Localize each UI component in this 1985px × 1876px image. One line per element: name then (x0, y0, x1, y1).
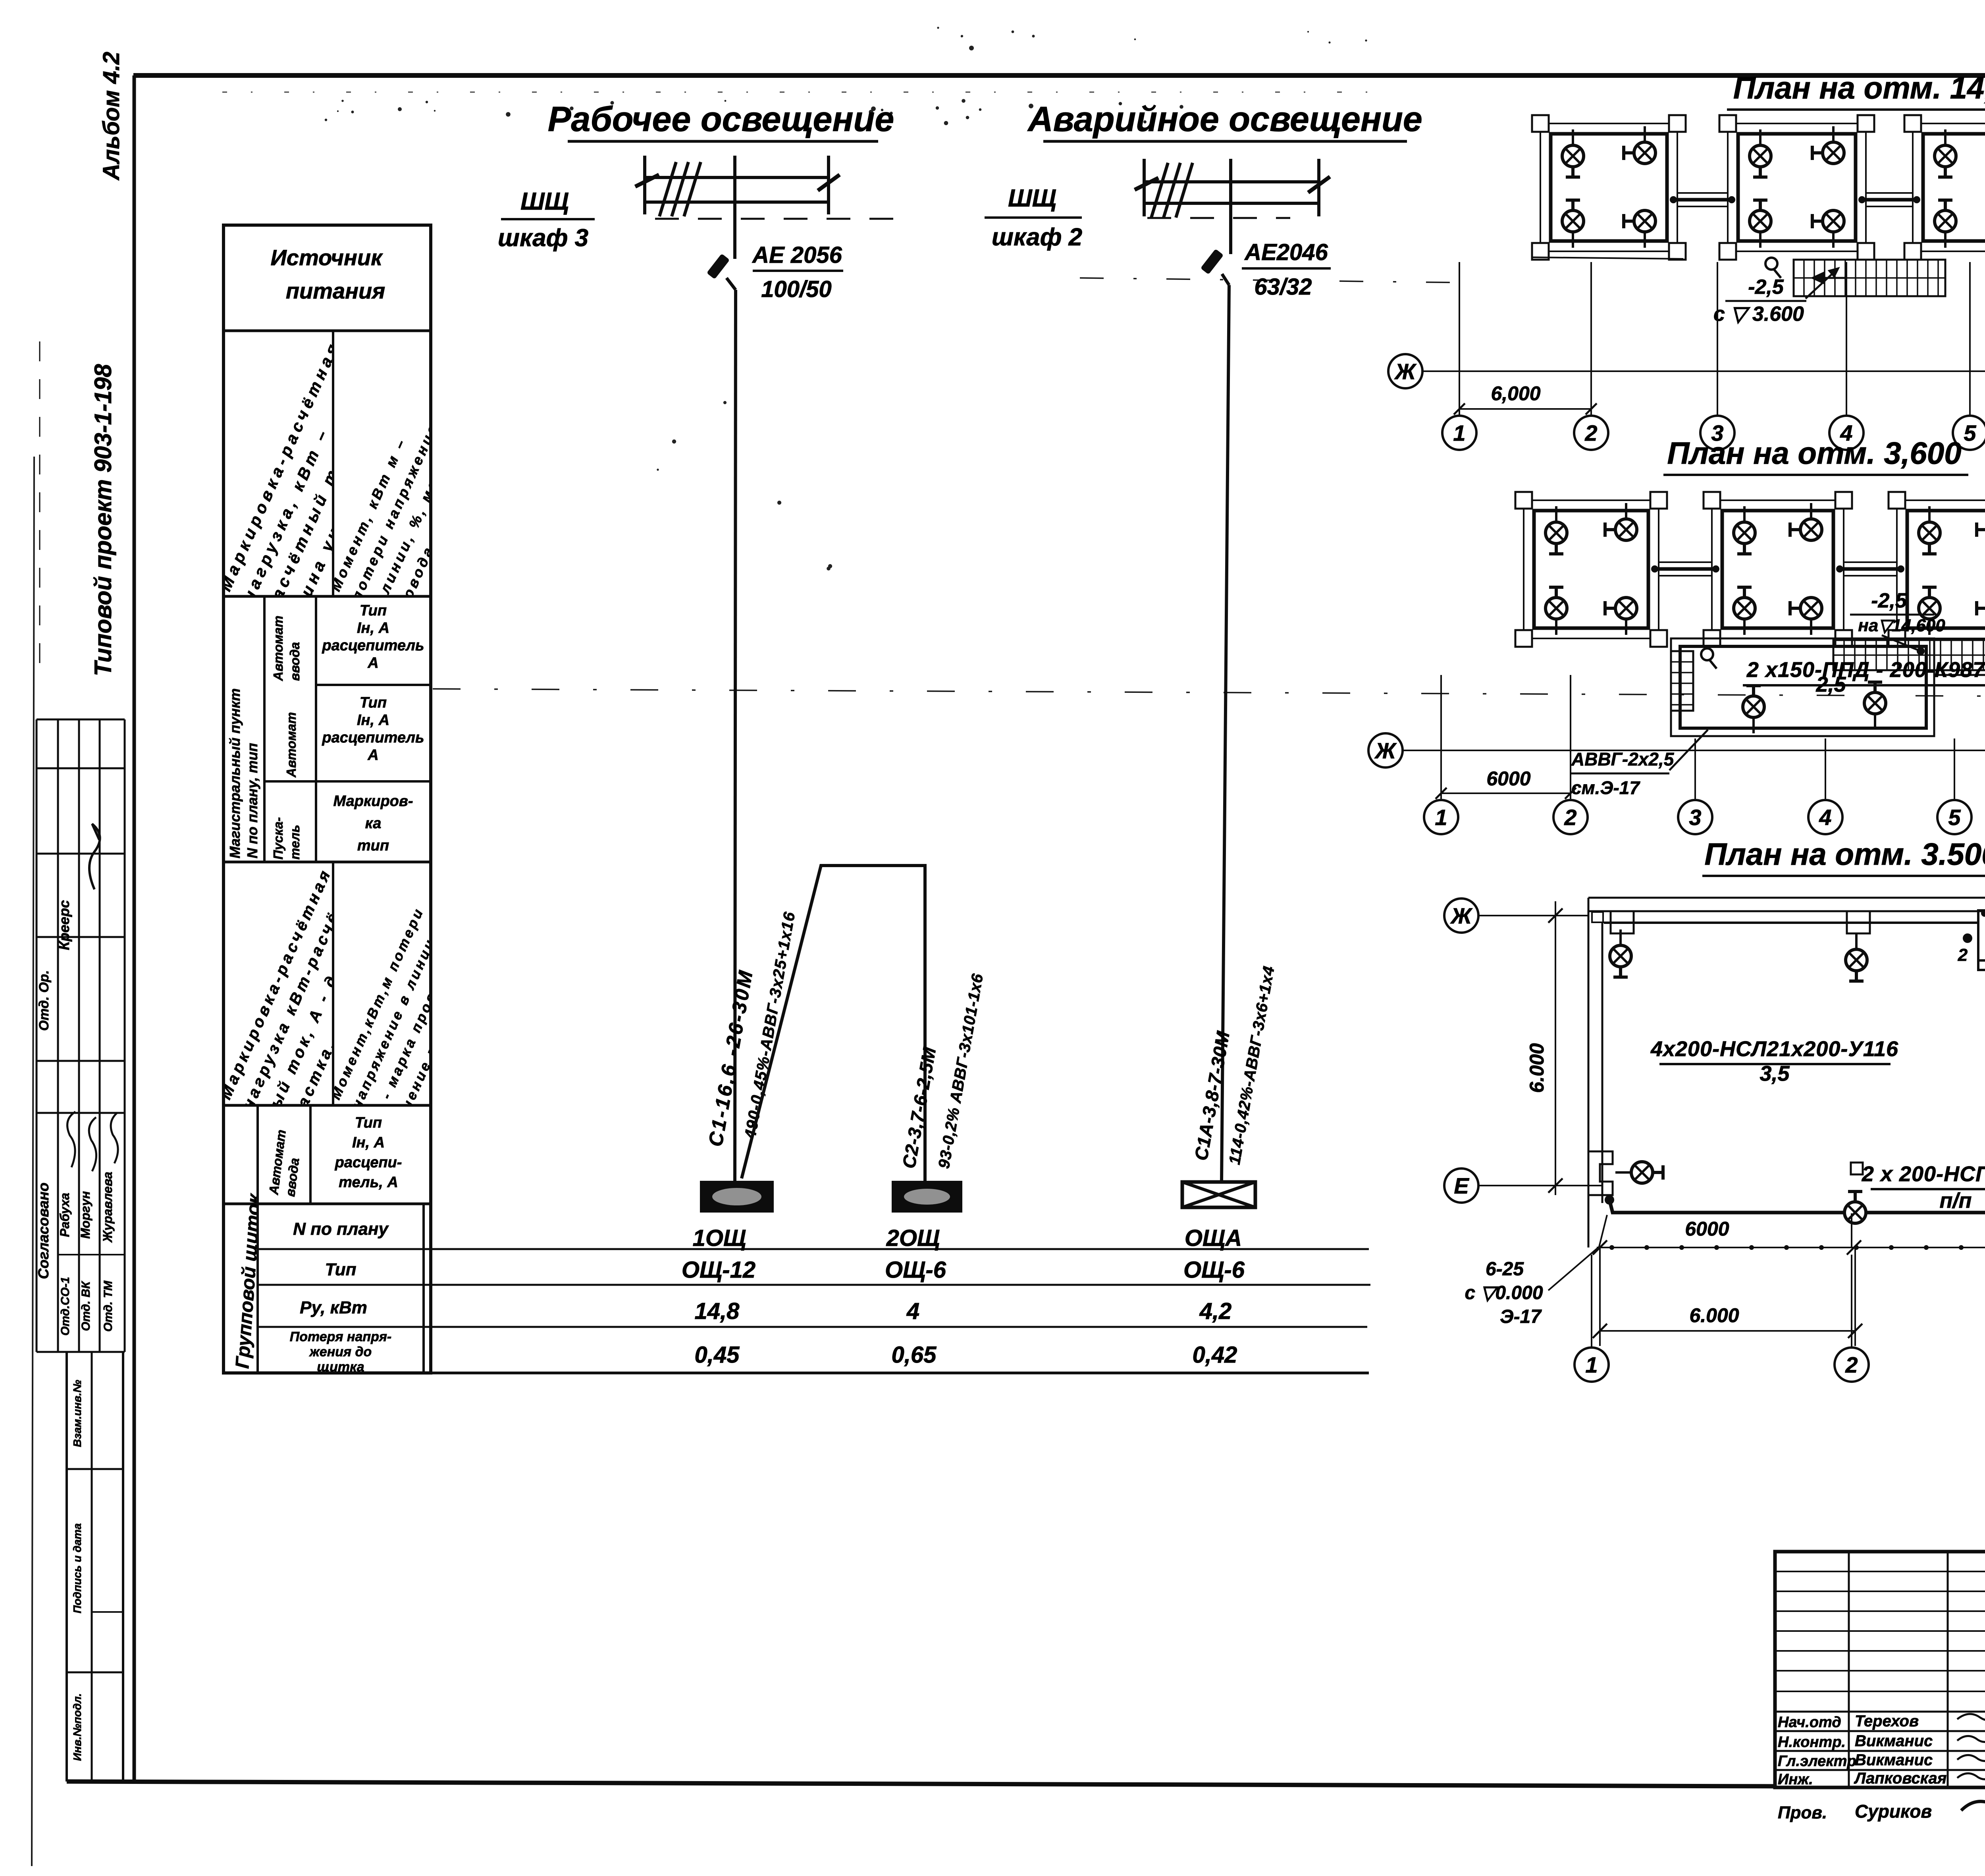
svg-text:Рабочее освещение: Рабочее освещение (548, 99, 894, 139)
lamp plan1 R2-BL (1750, 200, 1771, 248)
plan3 top wall (1588, 898, 1985, 911)
lamp plan3-2 (1846, 933, 1867, 981)
busbar riser1 (635, 156, 840, 216)
lamp plan3-B1 (1844, 1192, 1866, 1223)
table cell moment top (327, 360, 506, 622)
stair hatch plan1 stairs (1794, 260, 1945, 296)
axis plan2 axis 4 (1808, 800, 1842, 834)
svg-text:1ОЩ: 1ОЩ (693, 1225, 746, 1251)
room plan1 R3 walls (1904, 115, 1985, 260)
plan3 wire stub axis2 (1851, 1213, 1852, 1247)
plan3 wall pilaster A (1611, 911, 1634, 933)
svg-text:на▽14,600: на▽14,600 (1858, 616, 1945, 635)
svg-text:4,2: 4,2 (1199, 1298, 1232, 1324)
soglasovano signatures (67, 1112, 75, 1167)
stair hatch plan2 stairs left (1671, 651, 1693, 711)
plan1 axis stems (1459, 262, 1985, 415)
svg-text:2: 2 (1958, 945, 1968, 965)
table outer box (224, 225, 431, 1373)
svg-text:4: 4 (906, 1298, 919, 1324)
row line 1 (424, 1248, 1369, 1250)
svg-text:2: 2 (1845, 1352, 1858, 1377)
table cell moment 2 (328, 905, 490, 1130)
svg-text:0,65: 0,65 (892, 1342, 937, 1368)
lamp plan1 R2-TR (1812, 126, 1844, 164)
plan2 axis stems (1441, 675, 1985, 799)
plan3 dim extension lines (1600, 1247, 1855, 1346)
lamp plan1 R3-BL (1935, 200, 1956, 248)
lamp plan2 annex-2 (1864, 682, 1886, 730)
svg-text:1: 1 (1453, 420, 1465, 445)
svg-text:Согласовано: Согласовано (35, 1182, 52, 1279)
lamp plan1 R1-BL (1562, 200, 1584, 248)
svg-text:1: 1 (1435, 805, 1447, 830)
svg-text:3: 3 (1689, 805, 1701, 830)
panel 1OShch (700, 1181, 774, 1213)
svg-text:Отд. Ор.: Отд. Ор. (37, 970, 52, 1031)
row line 3 (424, 1326, 1367, 1328)
svg-text:5: 5 (1964, 420, 1976, 445)
plan3 leader 6-25 (1548, 1215, 1607, 1290)
svg-text:Типовой проект 903-1-198: Типовой проект 903-1-198 (90, 364, 116, 676)
plan3 niche (1978, 910, 1985, 960)
room plan2 R1 walls (1515, 492, 1667, 647)
axis plan1 axis 2 (1574, 416, 1608, 450)
plan2 leader AVVG (1669, 730, 1708, 770)
plan3 junction dot left (1605, 1195, 1614, 1205)
svg-text:Нач.отд: Нач.отд (1778, 1714, 1841, 1731)
svg-text:100/50: 100/50 (761, 276, 831, 302)
axis plan1 axis 3 (1700, 416, 1734, 450)
svg-text:питания: питания (286, 278, 385, 303)
svg-text:2: 2 (1564, 805, 1576, 830)
wire C2 branch (742, 866, 925, 1181)
plan3 left wall (1588, 898, 1602, 1247)
axis plan3 E (1444, 1168, 1478, 1203)
svg-text:с ▽ 3.600: с ▽ 3.600 (1713, 303, 1804, 326)
svg-text:Е: Е (1454, 1173, 1469, 1198)
svg-text:Пров.: Пров. (1778, 1803, 1827, 1822)
margin lower strip grid (67, 1352, 123, 1782)
plan1 outer bottom line (1532, 257, 1683, 259)
svg-text:ОЩ-12: ОЩ-12 (682, 1257, 755, 1283)
axis plan2 axis 5 (1937, 800, 1972, 834)
lamp plan2 R1-TR (1605, 503, 1637, 540)
room plan1 R1 walls (1532, 115, 1686, 260)
svg-text:Аварийное освещение: Аварийное освещение (1027, 99, 1422, 139)
svg-text:4х200-НСЛ21х200-У116: 4х200-НСЛ21х200-У116 (1650, 1037, 1898, 1061)
breaker AE2056 (707, 202, 736, 290)
plan2 axis Zh line (1403, 750, 1985, 751)
svg-text:см.Э-17: см.Э-17 (1571, 777, 1640, 798)
svg-text:Отд. ТМ: Отд. ТМ (102, 1280, 115, 1332)
table cell magistralny punkt (227, 688, 260, 858)
svg-text:АЕ 2056: АЕ 2056 (752, 242, 842, 268)
wire C1 riser drop (735, 290, 736, 1181)
svg-text:ШЩ: ШЩ (520, 188, 569, 215)
svg-text:Терехов: Терехов (1855, 1712, 1919, 1730)
panel 2OShch (892, 1181, 962, 1213)
plan1 switch symbol (1765, 258, 1781, 278)
axis plan3 Zh (1444, 898, 1478, 933)
axis plan1 axis 4 (1829, 416, 1864, 450)
svg-text:План на отм. 3,600: План на отм. 3,600 (1667, 436, 1961, 470)
svg-text:Гл.электр: Гл.электр (1778, 1753, 1856, 1770)
svg-text:ОЩ-6: ОЩ-6 (1183, 1257, 1245, 1283)
busbar riser2 (1135, 159, 1330, 218)
svg-text:4: 4 (1819, 805, 1831, 830)
axis plan1 Zh (1388, 354, 1422, 388)
scan edge line left (32, 457, 34, 1866)
svg-text:Отд. ВК: Отд. ВК (79, 1280, 93, 1331)
svg-text:Ж: Ж (1374, 738, 1397, 763)
table cell markirovka top (216, 338, 413, 625)
svg-text:Ж: Ж (1394, 359, 1417, 384)
lamp plan2 R1-BR (1605, 598, 1637, 635)
svg-text:АВВГ-2х2,5: АВВГ-2х2,5 (1571, 749, 1675, 769)
svg-text:п/п: п/п (1940, 1189, 1972, 1213)
lamp plan2 R2-BL (1734, 587, 1755, 635)
svg-text:Отд.СО-1: Отд.СО-1 (59, 1277, 72, 1336)
svg-text:6-25: 6-25 (1486, 1259, 1524, 1280)
svg-text:ОЩ-6: ОЩ-6 (885, 1257, 946, 1283)
svg-text:Источник: Источник (271, 245, 384, 270)
plan2 annex room (1671, 638, 1934, 736)
lamp plan2 R3-BL (1919, 587, 1940, 635)
lamp plan2 annex-1 (1743, 686, 1764, 733)
plan2 switch symbol (1701, 648, 1717, 669)
plan3 axis stems bottom (1592, 1255, 1985, 1348)
corridor wire plan2 c23 (1836, 562, 1904, 576)
room plan1 R2 walls (1719, 115, 1874, 260)
plan3 small square A (1851, 1163, 1863, 1174)
row line 2 (424, 1284, 1370, 1286)
svg-text:Э-17: Э-17 (1500, 1306, 1542, 1327)
corridor wire plan1 c12 (1670, 193, 1735, 206)
svg-text:63/32: 63/32 (1254, 274, 1312, 300)
svg-text:5: 5 (1948, 805, 1961, 830)
axis plan2 Zh (1368, 733, 1403, 767)
svg-text:шкаф 2: шкаф 2 (992, 224, 1082, 251)
wire C1A riser drop (1222, 285, 1229, 1182)
svg-text:6000: 6000 (1486, 767, 1530, 790)
svg-text:2 х 200-НСП21-200: 2 х 200-НСП21-200 (1862, 1162, 1985, 1186)
lamp plan1 R3-TL (1935, 129, 1956, 177)
sheet frame bottom border (67, 1782, 1776, 1786)
svg-text:6.000: 6.000 (1526, 1043, 1548, 1093)
lamp plan2 R1-BL (1546, 587, 1567, 635)
plan3 wall pilaster B (1847, 911, 1870, 933)
svg-text:2,5: 2,5 (1815, 673, 1846, 696)
svg-text:14,8: 14,8 (695, 1298, 740, 1324)
svg-text:Креерс: Креерс (56, 900, 72, 950)
svg-text:Ж: Ж (1450, 903, 1473, 928)
lamp plan1 R2-BR (1812, 210, 1844, 248)
corridor wire plan1 c23 (1858, 193, 1920, 206)
plan3 corner square (1592, 912, 1603, 922)
svg-text:Викманис: Викманис (1855, 1751, 1933, 1769)
svg-text:0,42: 0,42 (1193, 1342, 1237, 1368)
lamp plan2 R1-TL (1546, 506, 1567, 554)
margin table upper grid (37, 719, 125, 1113)
soglasovano table grid (37, 1113, 125, 1352)
svg-text:Суриков: Суриков (1855, 1801, 1932, 1822)
svg-text:Рабуха: Рабуха (58, 1193, 72, 1237)
plan3 bottom dotted wall (1597, 1245, 1985, 1250)
row line bottom (224, 1372, 1369, 1375)
table cell markirovka 2 (216, 865, 402, 1133)
svg-text:6.000: 6.000 (1689, 1304, 1739, 1327)
scan speckles (325, 27, 1985, 570)
plan3 axis E (1478, 1185, 1601, 1186)
axis plan3 axis 1 (1575, 1348, 1609, 1382)
busbar riser2 dashed continuation (1147, 217, 1290, 219)
panel OShchA (1182, 1182, 1255, 1207)
lamp plan1 R1-TL (1562, 129, 1584, 177)
fold dash segment upper (1080, 278, 1468, 283)
svg-text:АЕ2046: АЕ2046 (1244, 239, 1328, 265)
room plan2 R3 walls (1889, 492, 1985, 647)
axis plan2 axis 2 (1553, 800, 1588, 834)
plan3 bottom wire (1609, 1200, 1985, 1213)
fold dash-dot line middle (433, 689, 1985, 699)
axis plan2 axis 1 (1424, 800, 1458, 834)
lamp plan2 R2-BR (1790, 598, 1822, 635)
stair hatch plan2 stairs top (1833, 640, 1985, 670)
axis plan1 axis 1 (1442, 416, 1476, 450)
plan3 junction dot 2 (1963, 933, 1972, 943)
margin signature squiggle (89, 824, 100, 889)
plan3 vert dim line (1555, 901, 1556, 1195)
axis plan3 axis 2 (1835, 1348, 1869, 1382)
svg-text:N по плану: N по плану (293, 1219, 389, 1239)
svg-text:2: 2 (1584, 420, 1597, 445)
sheet frame top border (133, 73, 1985, 78)
svg-text:ОЩА: ОЩА (1185, 1225, 1242, 1251)
plan3 axis Zh (1478, 915, 1588, 916)
svg-text:Лапковская: Лапковская (1854, 1770, 1946, 1787)
svg-text:с ▽0.000: с ▽0.000 (1465, 1282, 1543, 1303)
svg-text:Ру, кВт: Ру, кВт (300, 1298, 367, 1317)
svg-text:-2,5: -2,5 (1748, 276, 1784, 299)
svg-text:Взам.инв.№: Взам.инв.№ (71, 1380, 83, 1447)
corridor wire plan2 c12 (1651, 562, 1719, 576)
plan1 stair arrow (1813, 273, 1846, 283)
svg-text:2 х150-ППД - 200-К987: 2 х150-ППД - 200-К987 (1746, 658, 1985, 682)
lamp plan3-E (1615, 1162, 1663, 1183)
plan2 stair step outline (1934, 634, 1985, 675)
svg-text:Моргун: Моргун (78, 1191, 93, 1239)
sheet frame left border (133, 75, 136, 1783)
axis plan2 axis 3 (1678, 800, 1712, 834)
lamp plan2 R2-TL (1734, 506, 1755, 554)
svg-text:Автомат: Автомат (284, 712, 299, 778)
svg-text:Подпись и дата: Подпись и дата (71, 1523, 83, 1614)
lamp plan1 R1-TR (1624, 126, 1655, 164)
lamp plan1 R1-BR (1624, 210, 1655, 248)
svg-text:Альбом 4.2: Альбом 4.2 (98, 52, 124, 181)
title block left grid (1775, 1552, 1985, 1787)
room plan2 R2 walls (1704, 492, 1852, 647)
svg-text:Инж.: Инж. (1778, 1771, 1813, 1788)
lamp plan1 R2-TL (1750, 129, 1771, 177)
plan1 axis Zh line (1423, 370, 1985, 372)
lamp plan2 R3-BR (1977, 598, 1985, 635)
svg-text:шкаф 3: шкаф 3 (498, 224, 588, 252)
table cell gruppovoy shchitok (232, 1192, 265, 1369)
margin dashed line (39, 341, 40, 675)
lamp plan3-1 (1610, 929, 1631, 977)
svg-text:Тип: Тип (325, 1260, 357, 1279)
breaker AE2046 (1201, 203, 1231, 285)
plan3 niche wire (1978, 961, 1985, 970)
title block outer box (1775, 1552, 1985, 1787)
svg-text:-2,5: -2,5 (1871, 589, 1907, 612)
scan crease line top (222, 92, 1389, 93)
plan3 E wall jog (1588, 1151, 1613, 1195)
plan1 leader arrow (1806, 268, 1838, 299)
svg-text:0,45: 0,45 (695, 1342, 740, 1368)
plan3 top wire (1604, 910, 1985, 923)
svg-text:Журавлева: Журавлева (100, 1172, 115, 1243)
svg-text:6000: 6000 (1685, 1218, 1729, 1240)
svg-text:План на отм. 3.500: План на отм. 3.500 (1704, 837, 1985, 871)
lamp plan2 R2-TR (1790, 503, 1822, 540)
svg-text:Н.контр.: Н.контр. (1778, 1734, 1846, 1751)
svg-text:Викманис: Викманис (1855, 1732, 1933, 1750)
svg-text:2ОЩ: 2ОЩ (886, 1225, 940, 1251)
svg-text:План на отм. 14,600: План на отм. 14,600 (1733, 70, 1985, 105)
plan2 leader to stairs (1882, 635, 1921, 651)
lamp plan2 R3-TL (1919, 506, 1940, 554)
axis plan1 axis 5 (1953, 416, 1985, 450)
svg-text:3,5: 3,5 (1760, 1062, 1790, 1085)
svg-text:Инв.№подл.: Инв.№подл. (71, 1693, 83, 1761)
svg-text:1: 1 (1585, 1352, 1598, 1377)
svg-text:6,000: 6,000 (1491, 382, 1540, 405)
busbar riser1 dashed continuation (655, 218, 907, 220)
svg-text:ШЩ: ШЩ (1008, 185, 1056, 212)
lamp plan2 R3-TR (1977, 503, 1985, 540)
